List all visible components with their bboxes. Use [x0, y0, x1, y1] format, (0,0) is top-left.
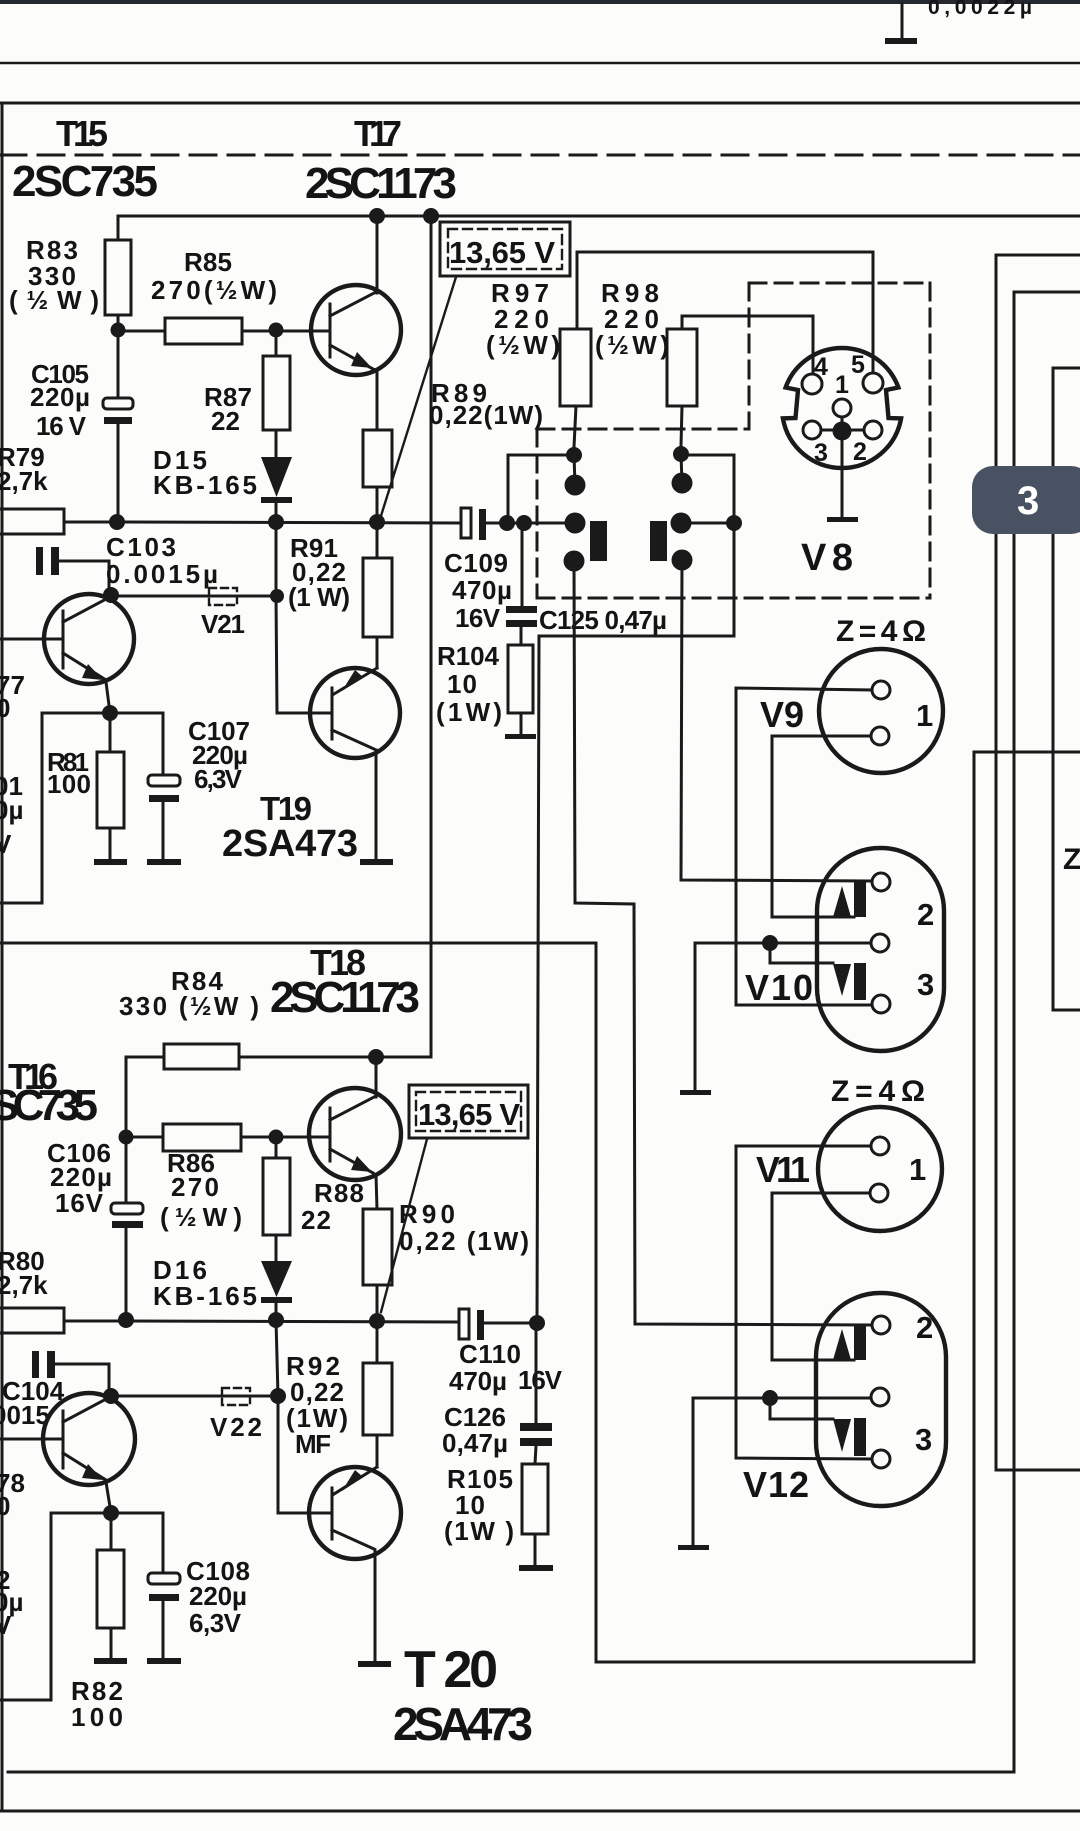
upper block bottom border / speaker box: [0, 752, 1080, 1662]
svg-text:330 (½W ): 330 (½W ): [119, 991, 259, 1021]
svg-text:470µ: 470µ: [452, 575, 512, 605]
wire D15 node to T19 base: [276, 522, 330, 713]
wire supply drop to lower channel: [430, 216, 433, 1057]
svg-text:3: 3: [917, 967, 934, 1002]
node C109 out a: [499, 515, 515, 531]
right section box B: [1014, 292, 1080, 1772]
capacitor C107: [148, 713, 180, 859]
wire mid rail upper: [118, 522, 461, 523]
contact group right (upper jack): [650, 446, 693, 571]
svg-text:470µ: 470µ: [449, 1366, 507, 1396]
node output upper (13,65V point): [369, 514, 385, 530]
contact V12 lower (triangle+bar): [833, 1418, 866, 1456]
resistor R82: [97, 1513, 124, 1658]
resistor R86: [126, 1124, 328, 1151]
capacitor C109: [461, 508, 575, 540]
page tab 3: [972, 466, 1080, 534]
svg-text:22: 22: [301, 1205, 331, 1235]
svg-text:T19: T19: [260, 790, 312, 827]
svg-text:2: 2: [916, 1310, 933, 1345]
svg-text:V12: V12: [743, 1464, 809, 1505]
svg-text:0,47µ: 0,47µ: [442, 1428, 508, 1458]
svg-text:220µ: 220µ: [189, 1581, 247, 1611]
node T17 collector on rail: [369, 208, 385, 224]
svg-text:3: 3: [814, 439, 828, 467]
svg-text:2: 2: [853, 438, 867, 466]
svg-text:C109: C109: [444, 548, 508, 578]
svg-text:3: 3: [1017, 479, 1039, 523]
wire T17 emitter: [376, 371, 379, 430]
svg-text:13,65 V: 13,65 V: [449, 235, 555, 270]
wire V21 link: [111, 595, 277, 598]
contact group left (upper jack): [564, 447, 608, 572]
svg-text:16V: 16V: [455, 603, 501, 633]
ground T20: [358, 1661, 391, 1667]
resistor R83: [105, 216, 131, 330]
svg-text:6,3V: 6,3V: [189, 1608, 242, 1638]
wire emitter node horizontal: [42, 712, 163, 715]
svg-text:22: 22: [211, 406, 240, 436]
svg-text:3: 3: [915, 1422, 932, 1457]
voltage box 13,65V upper: [440, 222, 570, 276]
transistor T17: [311, 285, 401, 375]
wire V9 pin bottom to V10 contact: [772, 736, 871, 917]
ground C108: [147, 1658, 181, 1664]
ground V10: [680, 1090, 711, 1095]
svg-text:2SC735: 2SC735: [0, 1081, 98, 1130]
svg-text:0015: 0015: [0, 1400, 50, 1430]
wire V12 mid to ground: [693, 1398, 871, 1545]
node D16 on rail: [268, 1312, 284, 1328]
svg-text:V9: V9: [760, 694, 804, 735]
wire T17 collector: [376, 216, 379, 293]
transistor T20: [309, 1467, 401, 1559]
svg-text:2SC1173: 2SC1173: [305, 159, 457, 208]
resistor R104: [508, 645, 533, 734]
wire junction down to lower feed: [537, 523, 734, 1323]
capacitor C103: [36, 547, 109, 595]
resistor R91 body: [363, 522, 392, 668]
speaker connector V9: [819, 649, 943, 773]
node R88 base junction: [269, 1130, 284, 1145]
svg-text:Z: Z: [1063, 843, 1080, 876]
svg-text:T17: T17: [354, 113, 402, 154]
resistor R85: [118, 318, 327, 344]
wire V10 mid to ground: [695, 943, 871, 1090]
svg-text:R85: R85: [184, 247, 232, 277]
diode D15: [261, 457, 292, 522]
jumper V22: [222, 1388, 250, 1405]
callout line upper: [380, 277, 456, 519]
resistor R89: [363, 430, 392, 522]
wire T19 collector to ground: [375, 750, 378, 859]
capacitor C125: [506, 523, 537, 645]
capacitor C105: [103, 330, 133, 522]
contact V10 upper (triangle+bar): [833, 882, 866, 917]
contact V12 upper (triangle+bar): [833, 1325, 866, 1360]
dashed enclosure speaker switching: [537, 283, 930, 598]
svg-text:2: 2: [917, 897, 934, 932]
node C109 out b: [516, 515, 532, 531]
node supply drop on rail: [423, 208, 439, 224]
node output lower (13,65V point): [369, 1313, 385, 1329]
svg-text:5: 5: [851, 351, 865, 379]
svg-text:C125 0,47µ: C125 0,47µ: [539, 605, 667, 635]
svg-text:Z = 4 Ω: Z = 4 Ω: [831, 1075, 925, 1108]
resistor R88: [263, 1137, 290, 1261]
capacitor C110: [459, 1309, 537, 1340]
wire D16 node to T20 base: [276, 1320, 330, 1513]
svg-text:T15: T15: [56, 113, 108, 154]
resistor R105: [522, 1464, 548, 1565]
node V21 right: [270, 589, 284, 603]
svg-text:V 8: V 8: [801, 537, 853, 579]
svg-text:2SA473: 2SA473: [393, 1698, 533, 1750]
bottom border 2: [0, 1810, 1080, 1813]
transistor T19: [310, 668, 400, 758]
svg-text:1: 1: [916, 698, 933, 733]
callout line lower: [381, 1139, 427, 1312]
jumper V21: [209, 588, 237, 605]
wire T18 emitter: [376, 1175, 377, 1209]
diode D16: [261, 1261, 292, 1320]
transistor T15: [0, 594, 134, 684]
wire V11 pin bottom to V12 contact: [772, 1193, 870, 1360]
svg-text:100: 100: [71, 1702, 123, 1732]
ground V12: [678, 1545, 709, 1550]
ground C107: [147, 859, 181, 865]
speaker connector V10: [817, 848, 944, 1051]
svg-text:V10: V10: [745, 967, 813, 1008]
ground T19: [360, 859, 393, 865]
node C106 on rail: [118, 1312, 134, 1328]
node T16 collector: [103, 1388, 119, 1404]
node D15 on rail: [268, 514, 284, 530]
speaker connector V12: [816, 1293, 946, 1506]
svg-text:2,7k: 2,7k: [0, 466, 48, 496]
node R83/R85: [111, 323, 126, 338]
svg-text:2SA473: 2SA473: [222, 823, 358, 865]
node V10 mid: [762, 935, 778, 951]
voltage box 13,65V lower: [409, 1085, 528, 1138]
node C105 on rail: [109, 514, 125, 530]
svg-text:C110: C110: [459, 1339, 521, 1369]
bottom border 1: [8, 1771, 1014, 1774]
capacitor C126: [520, 1323, 552, 1464]
resistor R80 (partial): [0, 1308, 126, 1333]
border line top 2: [0, 102, 1080, 105]
svg-text:C103: C103: [106, 532, 176, 562]
resistor R81: [97, 713, 124, 859]
wire contact left bottom to V12 pin2: [574, 561, 872, 1325]
svg-text:6,3V: 6,3V: [194, 764, 243, 794]
svg-text:(1 W): (1 W): [288, 582, 350, 612]
capacitor C108: [148, 1513, 180, 1658]
ground R105: [519, 1565, 553, 1571]
wire feedback down-left lower: [0, 1513, 51, 1700]
node V22 right: [270, 1388, 286, 1404]
wire V9 pin1 to V10 pin3: [736, 688, 872, 1005]
svg-text:V22: V22: [210, 1412, 262, 1442]
svg-text:V: V: [0, 1610, 12, 1640]
wire V10 mid node to lower contact: [770, 943, 833, 963]
svg-text:V11: V11: [756, 1149, 810, 1190]
ground R82: [94, 1658, 127, 1664]
ground R81: [94, 859, 127, 865]
svg-text:220µ: 220µ: [30, 382, 90, 412]
capacitor C106: [111, 1137, 143, 1320]
svg-text:MF: MF: [295, 1429, 331, 1459]
ground (top capacitor): [885, 4, 917, 44]
wire T20 collector to ground: [374, 1550, 377, 1661]
svg-text:16 V: 16 V: [36, 411, 87, 441]
wire feedback down-left: [0, 713, 42, 903]
resistor R87: [263, 330, 290, 457]
svg-text:4: 4: [814, 353, 828, 381]
transistor T16: [0, 1393, 135, 1485]
svg-text:13,65 V: 13,65 V: [418, 1097, 520, 1132]
node T18 collector on rail: [368, 1049, 384, 1065]
svg-text:0: 0: [0, 1491, 10, 1521]
svg-text:1: 1: [835, 371, 849, 399]
DIN connector V8: [783, 348, 901, 468]
svg-text:0,22(1W): 0,22(1W): [429, 400, 543, 430]
wire T16 emitter: [106, 1482, 111, 1513]
wire top supply rail: [118, 215, 1080, 218]
resistor R79 (partial): [0, 509, 118, 534]
svg-text:0: 0: [0, 693, 10, 723]
ground R104: [505, 734, 536, 739]
wire emitter node horizontal lower: [51, 1512, 163, 1515]
svg-text:V21: V21: [201, 609, 245, 639]
wire V22 link: [111, 1395, 278, 1398]
resistor R97: [560, 252, 873, 447]
dashed section divider: [0, 154, 1080, 157]
node V12 mid: [762, 1390, 778, 1406]
ground V8: [827, 440, 858, 522]
wire mid rail lower: [126, 1321, 459, 1322]
svg-text:1: 1: [909, 1152, 926, 1187]
svg-text:2SC1173: 2SC1173: [270, 973, 420, 1022]
capacitor C104: [32, 1351, 109, 1396]
node R86/C106: [119, 1130, 134, 1145]
wire T18 collector: [375, 1057, 378, 1097]
wire to upper contact top: [508, 455, 565, 523]
wire contact right bottom to V10 pin2: [681, 560, 872, 881]
svg-text:R104: R104: [437, 641, 500, 671]
node T15 emitter: [102, 705, 118, 721]
resistor R98: [667, 316, 813, 446]
node R87 base junction: [269, 323, 284, 338]
svg-text:V: V: [0, 829, 12, 859]
right section box A: [996, 255, 1080, 1470]
wire right contact loop: [681, 455, 734, 523]
svg-text:(1W ): (1W ): [444, 1516, 514, 1546]
wire T15 emitter: [106, 682, 110, 713]
wire V11 pin1 to V12 pin3: [736, 1146, 872, 1459]
svg-text:0,22 (1W): 0,22 (1W): [399, 1226, 529, 1256]
resistor R92: [363, 1321, 392, 1467]
svg-text:100: 100: [47, 769, 91, 799]
svg-text:16V: 16V: [518, 1365, 563, 1395]
svg-text:0µ: 0µ: [0, 795, 23, 825]
top dark bar: [0, 0, 1080, 4]
svg-text:10: 10: [447, 669, 477, 699]
node T15 collector: [103, 587, 119, 603]
speaker connector V11: [818, 1107, 942, 1231]
svg-text:Z = 4 Ω: Z = 4 Ω: [836, 615, 926, 648]
wire V12 mid node to lower contact: [770, 1398, 833, 1419]
svg-text:T 20: T 20: [404, 1641, 498, 1699]
svg-text:16V: 16V: [55, 1188, 104, 1218]
left page border: [1, 103, 4, 1811]
right section box C: [1053, 368, 1080, 1010]
resistor R84: [126, 1044, 431, 1137]
node T16 emitter: [103, 1505, 119, 1521]
svg-text:270: 270: [171, 1172, 219, 1202]
svg-text:2SC735: 2SC735: [12, 157, 158, 206]
svg-text:R88: R88: [314, 1178, 364, 1208]
node contact junction: [726, 515, 742, 531]
border line top 1: [0, 62, 1080, 64]
resistor R90: [363, 1209, 392, 1321]
svg-text:2,7k: 2,7k: [0, 1270, 48, 1300]
contact V10 lower (triangle+bar): [833, 963, 866, 1000]
transistor T18: [309, 1088, 401, 1180]
node C110 out: [529, 1315, 545, 1331]
